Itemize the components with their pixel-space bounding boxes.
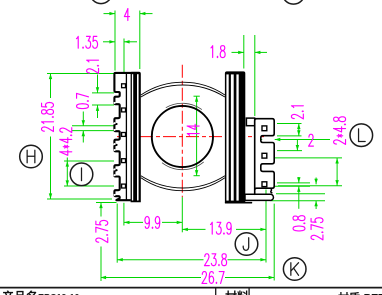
svg-text:材料: 材料: [224, 289, 249, 295]
svg-text:产品名: 产品名: [2, 289, 38, 295]
